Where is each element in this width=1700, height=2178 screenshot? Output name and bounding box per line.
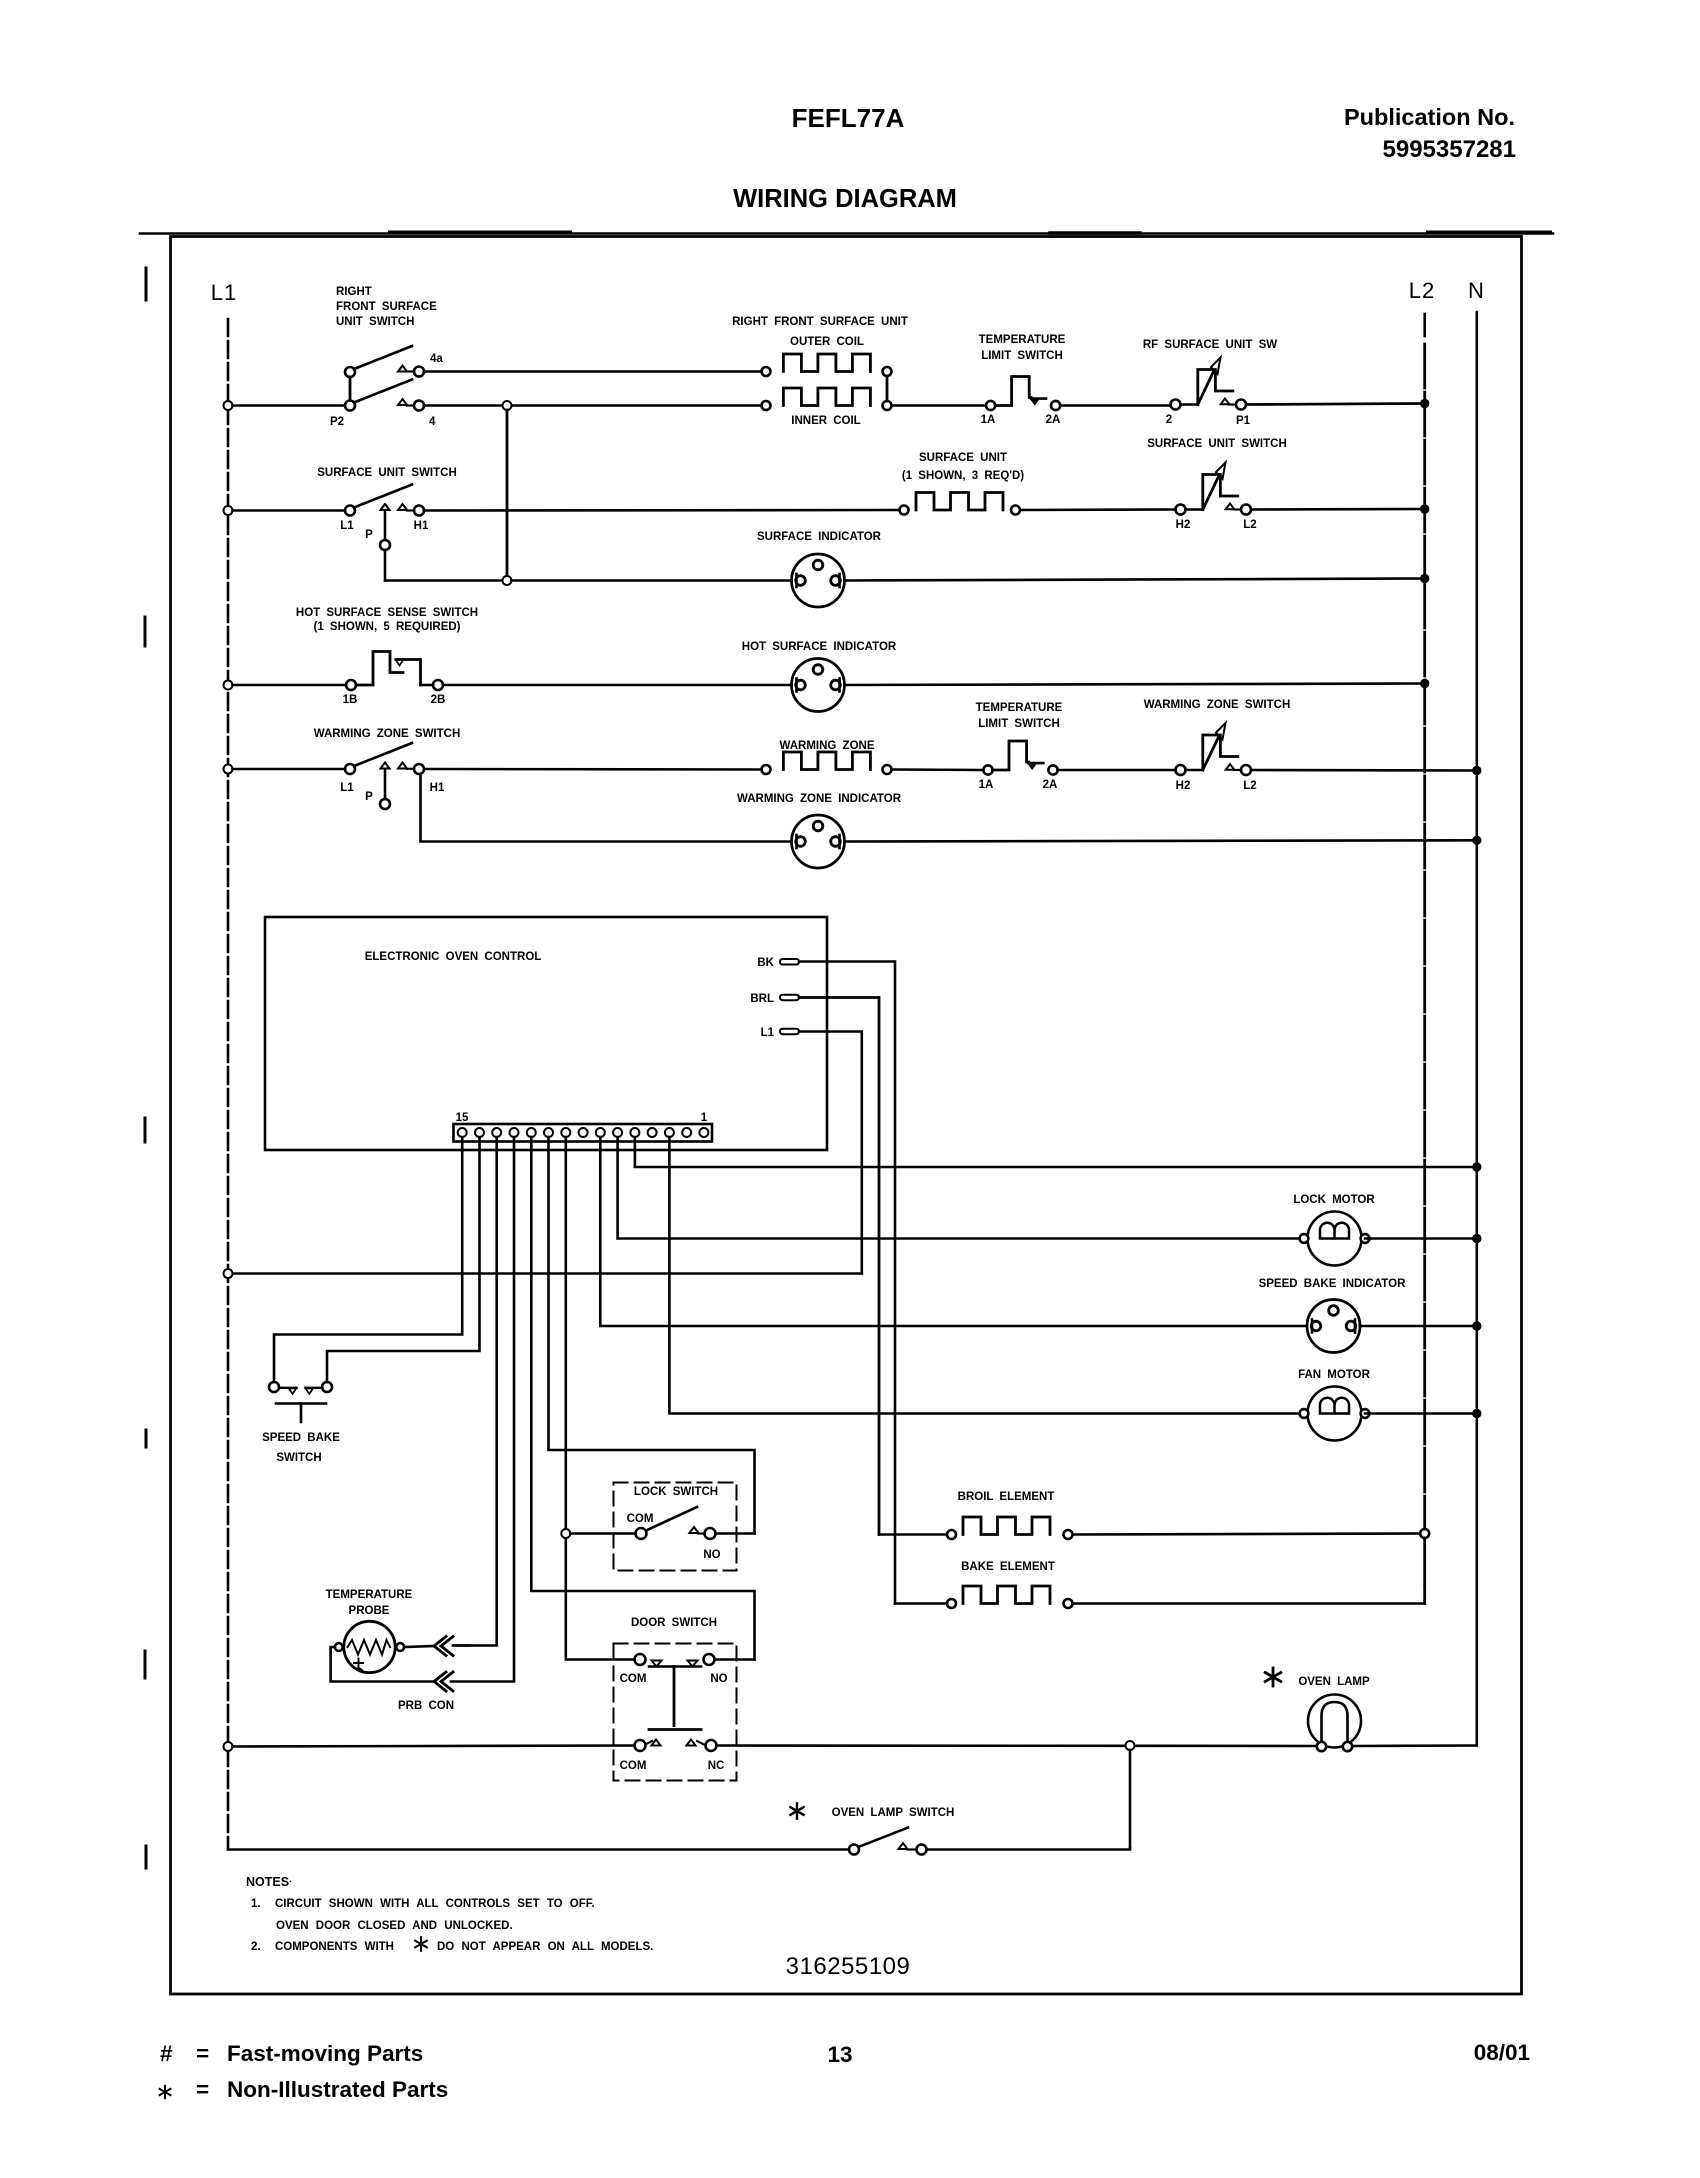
wire pin11 riser to door NO [715,1658,755,1661]
svg-text:#: # [160,2041,173,2066]
wire lock NO to pin10 riser [716,1532,755,1535]
wire bake element up to broil junction [1073,1538,1425,1604]
svg-text:5995357281: 5995357281 [1383,136,1516,163]
junction wzi-N [1473,836,1481,844]
svg-text:Fast-moving Parts: Fast-moving Parts [227,2041,423,2066]
svg-text:LOCK MOTOR: LOCK MOTOR [1293,1194,1375,1206]
svg-text:TEMPERATURE: TEMPERATURE [326,1589,413,1601]
svg-text:OUTER COIL: OUTER COIL [790,336,864,348]
wire 2A to warming zone switch (right) [1058,769,1176,772]
footer: fast-moving parts key [160,2041,423,2066]
svg-text:WIRING DIAGRAM: WIRING DIAGRAM [733,185,957,213]
wire pin14 to speed bake switch right [327,1137,480,1382]
junction row5-N [1473,766,1481,774]
wire H1 drop to warming zone indicator row [421,774,792,842]
svg-text:BAKE ELEMENT: BAKE ELEMENT [961,1561,1055,1573]
svg-text:FRONT SURFACE: FRONT SURFACE [336,301,437,313]
svg-text:SURFACE INDICATOR: SURFACE INDICATOR [757,531,882,543]
svg-text:NO: NO [710,1673,727,1685]
svg-text:L1: L1 [211,280,237,305]
heater broil element [879,1517,1073,1539]
svg-text:SPEED BAKE INDICATOR: SPEED BAKE INDICATOR [1259,1278,1406,1290]
wire riser oven lamp switch [1129,1750,1132,1848]
svg-text:L1: L1 [340,782,354,794]
wire switch to L2 rail [1251,508,1425,511]
wire H1 to warming zone coil [407,768,414,770]
connector chevron lower [434,1672,453,1691]
svg-text:NO: NO [703,1549,720,1561]
svg-text:SWITCH: SWITCH [276,1452,321,1464]
svg-text:SURFACE UNIT: SURFACE UNIT [919,452,1007,464]
junction L1-row5 [224,765,233,774]
svg-text:316255109: 316255109 [786,1953,911,1980]
junction fanmotor-N [1473,1409,1481,1417]
connector chevron upper [434,1637,453,1656]
motor fan motor [1300,1387,1370,1441]
box electronic oven control U1 [265,917,827,1150]
junction lamp row x1130 [1126,1741,1135,1750]
junction L1-row2 [224,506,233,515]
wire L1 to 1B [233,684,347,687]
svg-text:N: N [1468,278,1484,303]
thermistor temperature probe [335,1621,404,1672]
wire pin15 to speed bake switch left [274,1137,462,1382]
svg-text:2. COMPONENTS WITH: 2. COMPONENTS WITH [251,1941,394,1953]
svg-text:08/01: 08/01 [1474,2040,1530,2065]
wire L1 to warming zone switch [233,768,346,771]
wire speed bake indicator to N [1360,1325,1477,1328]
wire broil element to L2 junction [1073,1534,1420,1535]
svg-text:L1: L1 [761,1027,775,1039]
svg-text:HOT SURFACE SENSE SWITCH: HOT SURFACE SENSE SWITCH [296,607,478,619]
svg-text:INNER COIL: INNER COIL [791,415,860,427]
wire pin13 to probe upper [453,1137,497,1646]
svg-text:ELECTRONIC OVEN CONTROL: ELECTRONIC OVEN CONTROL [365,951,542,963]
svg-text:TEMPERATURE: TEMPERATURE [976,702,1063,714]
wire 2A to RF surface unit sw [1060,404,1170,407]
svg-text:4: 4 [429,416,436,428]
wire P-contact to indicator row [385,579,507,582]
svg-text:PRB CON: PRB CON [398,1700,454,1712]
connector strip P1 [454,1124,713,1142]
svg-text:NOTES.: NOTES. [246,1874,292,1889]
wire pin10 to lock switch NO [549,1137,755,1534]
junction L1-row1 [224,401,233,410]
label right front surface unit switch [336,286,437,328]
switch surface unit switch (right flag) [1176,463,1252,515]
junction sbind-N [1473,1322,1481,1330]
svg-text:LIMIT SWITCH: LIMIT SWITCH [981,350,1063,362]
switch RF surface unit sw [1171,358,1247,410]
wire L1 bottom to oven lamp switch [228,1848,849,1851]
wire pin12 to probe lower [451,1137,514,1682]
junction node at x507 row1 [503,401,512,410]
terminal BK pill [780,959,799,965]
svg-text:COM: COM [627,1513,654,1525]
svg-text:L2: L2 [1243,780,1256,792]
wire oven lamp to N end [1352,1744,1477,1747]
svg-text:WARMING ZONE SWITCH: WARMING ZONE SWITCH [314,728,461,740]
resistor surface unit coil [900,506,909,515]
svg-text:BK: BK [757,957,774,969]
svg-text:2A: 2A [1046,414,1061,426]
svg-text:H2: H2 [1176,780,1191,792]
wire fan motor to N [1365,1412,1477,1415]
svg-text:Publication No.: Publication No. [1344,104,1515,130]
svg-text:2B: 2B [431,694,446,706]
switch lock switch contacts [636,1507,716,1539]
lamp speed bake indicator [1307,1300,1360,1353]
resistor inner coil [762,401,771,410]
wire probe left to lower lead [331,1647,434,1682]
svg-text:=: = [196,2077,209,2102]
svg-text:Non-Illustrated Parts: Non-Illustrated Parts [227,2077,448,2102]
wire joining coil right terminals [886,376,889,401]
svg-text:DOOR SWITCH: DOOR SWITCH [631,1617,717,1629]
svg-text:P2: P2 [330,416,344,428]
junction row1-L2 [1421,399,1429,407]
lamp oven lamp [1308,1695,1361,1752]
scan tick marks on left margin [145,268,146,1868]
heater bake element [895,1586,1073,1608]
switch speed bake switch [269,1382,332,1422]
diagram outer border [171,237,1522,1995]
wire pin9 to lock COM / door COM [566,1137,635,1660]
box lock switch (dashed) [614,1483,737,1571]
wire 4a to outer coil [407,370,414,372]
svg-text:15: 15 [456,1112,469,1124]
lamp warming zone indicator [792,815,845,868]
box door switch (dashed) [614,1644,737,1781]
wire inner coil to temp limit switch [892,404,987,407]
switch hot surface sense switch [346,652,443,691]
svg-text:FEFL77A: FEFL77A [792,103,905,133]
junction pin5row-N [1473,1163,1481,1171]
wire P1 to L2 [1246,404,1425,405]
wire warming zone indicator to N [845,840,1477,841]
svg-text:SPEED BAKE: SPEED BAKE [262,1432,340,1444]
svg-text:2: 2 [1166,414,1172,426]
svg-text:1A: 1A [981,414,996,426]
svg-text:RIGHT: RIGHT [336,286,372,298]
svg-text:P: P [365,791,373,803]
svg-text:1B: 1B [343,694,358,706]
junction row4-L2 [1421,679,1429,687]
wire junction to lock COM [570,1532,635,1535]
wire L1 rail (left vertical) [227,319,230,1850]
svg-text:PROBE: PROBE [349,1605,390,1617]
wire L1 rail feed row [233,1272,862,1275]
lamp hot surface indicator [792,659,845,712]
junction row3-L2 [1421,574,1429,582]
connector pin holes [458,1128,709,1137]
junction L1-doorrow [224,1742,233,1751]
svg-text:BROIL ELEMENT: BROIL ELEMENT [958,1491,1055,1503]
motor lock motor [1300,1212,1370,1266]
svg-text:2A: 2A [1043,779,1058,791]
switch temperature limit switch (row5) [983,741,1057,775]
svg-text:13: 13 [827,2042,852,2067]
svg-text:LIMIT SWITCH: LIMIT SWITCH [978,718,1060,730]
switch door switch upper contacts [635,1654,715,1730]
svg-text:WARMING ZONE INDICATOR: WARMING ZONE INDICATOR [737,793,902,805]
junction pin9-lockrow [561,1529,570,1538]
svg-text:FAN MOTOR: FAN MOTOR [1298,1369,1370,1381]
svg-text:P: P [365,529,373,541]
lamp surface indicator [792,554,845,607]
svg-text:OVEN DOOR CLOSED AND UNLOCKED.: OVEN DOOR CLOSED AND UNLOCKED. [276,1920,513,1932]
switch door switch lower contacts [635,1740,717,1752]
svg-text:P1: P1 [1236,415,1251,427]
terminal L1 pill [780,1029,799,1035]
svg-text:UNIT SWITCH: UNIT SWITCH [336,316,414,328]
wire pin5 to N [635,1137,1477,1167]
junction x507 row3 [503,576,512,585]
wire door NC to oven lamp [717,1744,1317,1747]
svg-text:WARMING ZONE SWITCH: WARMING ZONE SWITCH [1144,699,1291,711]
label temperature probe [326,1589,413,1617]
svg-text:WARMING ZONE: WARMING ZONE [780,740,875,752]
wire upper lead chevron to pin13 [453,1644,470,1647]
resistor warming zone coil [762,765,771,774]
svg-text:H1: H1 [430,782,445,794]
switch temperature limit switch (row1) [986,377,1060,411]
svg-text:H2: H2 [1176,519,1191,531]
svg-text:L2: L2 [1409,278,1435,303]
svg-text:(1 SHOWN, 3 REQ'D): (1 SHOWN, 3 REQ'D) [902,470,1024,482]
junction L1-row4 [224,681,233,690]
svg-text:RIGHT FRONT SURFACE UNIT: RIGHT FRONT SURFACE UNIT [732,316,908,328]
svg-text:1A: 1A [979,779,994,791]
wire warming zone switch to N [1251,769,1477,772]
switch oven lamp switch [849,1828,927,1855]
svg-text:OVEN LAMP SWITCH: OVEN LAMP SWITCH [832,1807,955,1819]
footer: non-illustrated parts key [196,2077,448,2102]
wire surface unit coil to switch H2 [1020,508,1176,511]
wire 4 to inner coil [407,404,414,406]
wire surface indicator to L2 [845,579,1425,581]
note 2 asterisk [415,1937,427,1951]
wire L2 rail (right vertical) [1423,314,1426,336]
wire pin3 to fan motor row [669,1137,1303,1414]
wire L1 output [799,1032,862,1274]
junction L1-feedrow [224,1269,233,1278]
svg-text:COM: COM [620,1673,647,1685]
wire BK to bake element [799,962,895,1604]
wire H1 to surface unit coil [407,509,414,511]
wire lock motor to N [1365,1237,1477,1240]
svg-text:OVEN LAMP: OVEN LAMP [1298,1676,1370,1688]
switch SW1 right front surface unit switch [345,346,424,411]
resistor outer coil [762,367,771,376]
svg-text:=: = [196,2041,209,2066]
svg-text:LOCK SWITCH: LOCK SWITCH [634,1486,718,1498]
svg-text:4a: 4a [430,353,443,365]
svg-text:SURFACE UNIT SWITCH: SURFACE UNIT SWITCH [317,467,457,479]
svg-text:(1 SHOWN, 5 REQUIRED): (1 SHOWN, 5 REQUIRED) [313,621,460,633]
svg-text:H1: H1 [414,520,429,532]
wire oven lamp switch to riser [927,1848,1131,1850]
wire 2B to hot surface indicator [443,684,792,687]
wire N rail [1476,312,1479,1746]
svg-text:TEMPERATURE: TEMPERATURE [979,334,1066,346]
wire row3 junction to surface indicator [512,579,792,582]
wire L1 to switch L1-terminal [233,509,346,512]
wire pin7 to speed bake indicator row [600,1137,1306,1326]
junction row2-L2 [1421,505,1429,513]
label hot surface sense switch [296,607,478,633]
svg-text:COM: COM [620,1760,647,1772]
svg-text:L2: L2 [1243,519,1256,531]
label surface unit [902,452,1024,482]
wire warming zone coil to temp limit switch [892,768,984,771]
terminal BRL pill [780,995,799,1001]
wire pin6 to lock motor row [618,1137,1303,1239]
wire probe right to upper lead [404,1646,434,1647]
wire L1 to door COM [233,1746,635,1747]
label oven lamp with asterisk [1298,1676,1370,1688]
svg-text:DO NOT APPEAR ON ALL MODELS.: DO NOT APPEAR ON ALL MODELS. [437,1941,653,1953]
switch warming zone switch (left) [345,743,424,809]
switch surface unit switch (left) [345,485,424,581]
svg-text:RF SURFACE UNIT SW: RF SURFACE UNIT SW [1143,339,1277,351]
svg-text:1. CIRCUIT SHOWN WITH ALL CON: 1. CIRCUIT SHOWN WITH ALL CONTROLS SET T… [251,1898,595,1910]
junction lockmotor-N [1473,1234,1481,1242]
svg-text:BRL: BRL [750,993,774,1005]
label temperature limit switch (row1) [979,334,1066,362]
wire vertical x507 row1 to row3 [506,410,509,581]
switch warming zone switch (right flag) [1176,723,1252,775]
svg-text:NC: NC [708,1760,725,1772]
svg-text:SURFACE UNIT SWITCH: SURFACE UNIT SWITCH [1147,438,1287,450]
wire L1 to switch P2 [233,404,346,407]
wire BRL to broil element [799,998,879,1535]
label speed bake switch [262,1432,340,1464]
wire hot surface indicator to L2 [845,684,1425,686]
wire pin11 to door switch NO [531,1137,754,1660]
svg-text:1: 1 [701,1112,708,1124]
label oven lamp switch with asterisk [832,1807,955,1819]
svg-text:HOT SURFACE INDICATOR: HOT SURFACE INDICATOR [742,641,897,653]
label temperature limit switch (row5) [976,702,1063,730]
junction broil-L2 [1420,1529,1429,1538]
svg-text:L1: L1 [340,520,354,532]
title underline rule [140,232,1553,235]
